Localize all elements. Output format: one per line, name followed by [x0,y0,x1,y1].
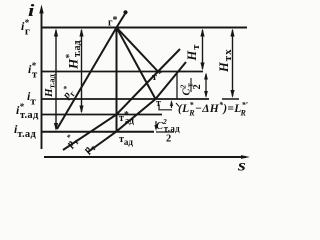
svg-text:(L*R−ΔH*)=L*′R: (L*R−ΔH*)=L*′R [178,101,248,118]
fraction bar C²т.ад/2 [156,131,174,133]
rotated label H_т [185,44,202,62]
tick under H_тх [222,98,239,100]
isentrope г*-т.ад [116,28,118,132]
isobar p_т [88,62,186,152]
dimension arrow ΔH [171,102,173,109]
i axis [41,10,43,149]
dimension arrow C²т.ад/2 [155,121,157,129]
dimension line H*_т.ад [81,30,83,112]
rotated label H_т.ад [43,74,57,98]
isobar p_т* [63,49,180,150]
dimension line H_тх [232,30,234,97]
fraction bar C²т/2 (vertical, rotated) [190,78,192,92]
arrowhead s axis [241,155,250,159]
dimension line H_т [202,30,204,69]
rotated label H*_т.ад [64,40,83,70]
arrowhead C²т.ад/2 down [154,125,157,131]
arrowheads H*_т.ад [79,29,83,37]
isobar p_г* [57,13,126,129]
slanted label p_т [81,140,98,157]
level line i_т [41,98,209,100]
leader to formula [176,103,179,107]
dimension line H_т.ад [55,30,57,129]
arrowheads H_т [200,29,204,37]
rotated label H_тх [217,48,234,73]
svg-text:s: s [237,156,246,174]
arrowheads C²т/2 [204,73,208,80]
arrowhead i axis [39,5,43,14]
rotated fraction C²т/2 numerator [179,82,195,95]
slanted label p_т* [61,132,81,151]
svg-text:т: т [156,98,161,109]
tick left of C²т/2 [176,74,178,99]
svg-text:2: 2 [166,134,171,145]
level line i_т* [41,71,203,73]
tick bracket ΔH [159,105,172,110]
arrowhead ΔH up [170,100,173,106]
process line г*-т* [117,28,159,72]
level line i*_т.ад [41,114,162,116]
dimension line C²т/2 [205,74,207,97]
s axis [44,156,246,158]
level line i_т.ад [41,131,154,133]
svg-text:2: 2 [192,84,203,89]
arrowheads H_т.ад [54,29,58,37]
slanted label p_г* [57,84,77,103]
arrowheads H_тх [230,29,234,37]
dot on p_г* end [123,10,127,14]
svg-text:i: i [28,2,35,21]
rotated fraction C²т/2 denominator [192,84,203,89]
process line г*-т [117,28,156,100]
level line i_г* [41,27,247,29]
